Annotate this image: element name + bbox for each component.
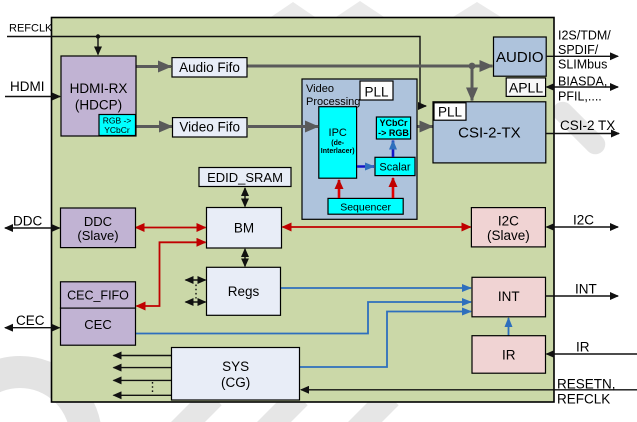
block PLL (video processing) [360,81,393,100]
wire EDID_SRAM to BM (bidir) [244,188,246,207]
block Video Processing container [302,79,417,219]
wire video path Video Fifo to IPC [247,125,318,128]
block AUDIO [494,37,547,76]
wire video path YCbCr to CSI-2-TX [411,125,433,128]
wire RESETN/REFCLK to SYS [301,389,637,391]
svg-text:CSI-2-TX: CSI-2-TX [458,125,521,142]
watermark bottom stripe 2 [162,388,221,422]
block APLL [506,78,545,97]
wire REFCLK net (top) [7,37,426,107]
block CEC [61,308,136,345]
svg-text:Interlacer): Interlacer) [321,148,355,155]
block IPC (de-Interlacer) [319,107,357,179]
wire CEC external (bidir) [5,327,60,329]
node REFCLK junction [96,34,100,38]
wire SYS output arrow 2 [114,367,172,369]
svg-text:INT: INT [575,282,597,297]
block Audio Fifo [172,58,247,77]
wire BIASDA/PFIL (bidir) [547,86,619,88]
block RGB to YCbCr converter [99,115,136,136]
svg-text:CEC_FIFO: CEC_FIFO [67,289,129,303]
label I2C [573,213,594,228]
block Regs [207,267,281,315]
wire red BM to CEC_FIFO [137,242,206,306]
svg-text:CEC: CEC [16,313,45,328]
block HDMI-RX (HDCP) [61,56,136,136]
svg-text:YCbCr: YCbCr [104,125,130,135]
block INT [472,277,546,317]
svg-text:Scalar: Scalar [379,162,411,174]
svg-text:INT: INT [498,289,520,304]
svg-text:I2C: I2C [573,213,594,228]
svg-text:HDMI-RX: HDMI-RX [70,81,128,96]
svg-text:YCbCr: YCbCr [379,118,407,128]
svg-text:HDMI: HDMI [10,79,45,94]
wire Regs left dotted ellipsis [195,285,197,299]
label HDMI [10,79,45,94]
block CSI-2-TX [433,102,546,163]
wire INT output [546,295,619,297]
watermark bottom stripe 3 [248,388,307,422]
svg-text:(Slave): (Slave) [77,228,118,243]
watermark bottom-left ring [0,372,86,422]
block Video Fifo [173,118,248,137]
wire SYS output arrow 3 [114,379,172,381]
block I2C (Slave) [471,208,545,247]
svg-text:Regs: Regs [228,284,260,299]
block PLL (CSI-2-TX) [434,103,466,120]
svg-text:SYS: SYS [222,359,249,374]
svg-text:Sequencer: Sequencer [340,202,391,214]
wire audio path HDMI-RX to Audio Fifo [136,65,171,68]
svg-text:AUDIO: AUDIO [496,49,544,66]
block IR [472,336,546,374]
block DDC (Slave) [61,208,136,248]
svg-text:CSI-2 TX: CSI-2 TX [560,118,615,133]
wire SYS output arrow 1 [114,355,172,357]
wire audio path Audio Fifo to AUDIO [247,65,493,68]
svg-text:RESETN,: RESETN, [557,377,616,392]
label DDC [13,214,42,229]
wire IR input [547,353,637,355]
svg-text:PLL: PLL [364,85,389,100]
chip outer boundary box [52,18,555,403]
label REFCLK (top-left) [9,23,53,35]
svg-text:CEC: CEC [84,317,111,332]
wire video path HDMI-RX to Video Fifo [136,125,172,128]
svg-text:REFCLK: REFCLK [557,392,610,407]
svg-text:EDID_SRAM: EDID_SRAM [207,170,283,185]
wire REFCLK branch to HDMI-RX [97,37,99,55]
watermark bottom stripe 4 [339,388,398,422]
svg-text:IR: IR [502,348,516,363]
label IR [576,340,590,355]
block Scalar [375,157,415,175]
svg-text:DDC: DDC [13,214,42,229]
block YCbCr to RGB converter [376,117,410,139]
wire SYS dotted ellipsis [152,382,154,394]
block Sequencer [328,198,403,214]
svg-text:Video Fifo: Video Fifo [179,120,240,135]
wire red Sequencer to IPC [338,180,341,198]
watermark top chevron 1 [271,2,315,17]
wire audio branch down to CSI-2-TX [471,66,474,101]
label REFCLK (bottom) [557,392,610,407]
wire blue Scalar to YCbCr [392,141,395,158]
svg-text:(HDCP): (HDCP) [75,98,122,113]
wire DDC external (bidir) [5,227,60,229]
label I2S/TDM/SPDIF/SLIMbus [558,29,611,72]
wire SYS output arrow 4 [114,394,172,396]
block SYS (CG) [172,348,300,401]
block EDID_SRAM [199,168,291,187]
block BM [207,208,282,249]
svg-text:DDC: DDC [84,214,112,229]
svg-text:Audio Fifo: Audio Fifo [179,60,240,75]
wire blue SYS to INT [300,312,471,368]
block CEC_FIFO [61,282,136,308]
wire HDMI input [5,96,60,98]
label INT [575,282,597,297]
svg-text:BIASDA,: BIASDA, [558,74,607,88]
svg-text:RGB ->: RGB -> [103,116,132,126]
svg-text:(de-: (de- [331,140,345,147]
wire blue IPC to Scalar [357,165,374,168]
watermark top chevron 3 [453,2,501,17]
svg-text:IR: IR [576,340,590,355]
svg-text:REFCLK: REFCLK [9,23,53,35]
svg-text:SPDIF/: SPDIF/ [558,43,599,57]
wire blue IR to INT [508,318,510,336]
label BIASDA, PFIL [558,74,607,103]
wire I2S/TDM output [546,55,618,57]
label CSI-2 TX [560,118,615,133]
svg-text:PLL: PLL [438,105,463,120]
svg-text:SLIMbus: SLIMbus [558,58,607,72]
wire blue Regs to INT [281,287,472,289]
wire I2C external (bidir) [547,226,619,228]
label CEC [16,313,45,328]
svg-text:-> RGB: -> RGB [378,128,409,138]
wire Regs left port 1 (bidir) [186,279,206,281]
svg-text:BM: BM [234,221,254,236]
svg-text:PFIL,....: PFIL,.... [558,89,602,103]
label RESETN, [557,377,616,392]
svg-text:I2C: I2C [498,214,519,229]
wire blue CEC to INT [135,302,471,334]
wire CSI-2 TX output [546,133,619,135]
svg-text:APLL: APLL [509,80,543,96]
wire BM to Regs (bidir) [244,249,246,266]
svg-text:I2S/TDM/: I2S/TDM/ [558,29,611,43]
svg-text:Video: Video [306,83,334,95]
wire red Sequencer to Scalar [392,178,395,198]
wire Regs left port 2 (bidir) [186,301,206,303]
watermark right stripe [549,98,610,159]
wire red DDC to BM [136,227,206,229]
watermark top chevron 2 [336,1,384,17]
svg-text:IPC: IPC [329,127,347,139]
svg-text:(Slave): (Slave) [487,228,530,243]
svg-text:(CG): (CG) [221,375,250,390]
node audio junction [469,63,476,70]
wire red BM to I2C [283,226,471,228]
